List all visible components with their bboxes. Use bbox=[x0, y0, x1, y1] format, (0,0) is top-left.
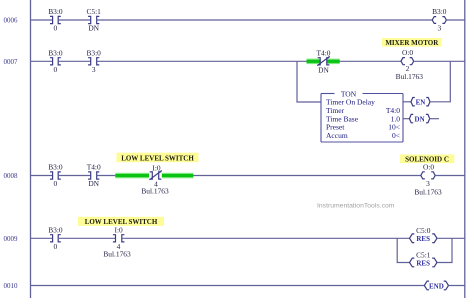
contact I:0/4 normally-closed LOW LEVEL SWITCH (rung 0008) bbox=[149, 171, 161, 180]
svg-text:0006: 0006 bbox=[4, 17, 19, 25]
svg-text:T4:0: T4:0 bbox=[87, 163, 101, 172]
svg-text:B3:0: B3:0 bbox=[48, 163, 63, 172]
svg-text:DN: DN bbox=[415, 115, 425, 123]
svg-text:0009: 0009 bbox=[4, 235, 19, 243]
wire TON to EN coil bbox=[403, 101, 411, 103]
TON instruction box bbox=[321, 94, 403, 143]
EN coil (TON enable output) bbox=[411, 98, 430, 106]
RES coil C5:1 (rung 0009 branch output) bbox=[410, 258, 438, 267]
green power-flow highlight right of T4:0 contact bbox=[327, 59, 339, 65]
contact B3:0/0 (rung 0007) bbox=[50, 58, 61, 65]
branch right vertical up to rung 0009 bbox=[437, 238, 452, 262]
svg-text:T4:0: T4:0 bbox=[317, 48, 331, 57]
contact C5:1/DN (rung 0006) bbox=[88, 16, 99, 23]
contact B3:0/3 (rung 0007) bbox=[88, 58, 99, 65]
wire TON to DN coil bbox=[403, 118, 409, 120]
contact T4:0/DN normally-closed (rung 0007) bbox=[317, 56, 329, 65]
rung 0010 wire: END coil to right rail bbox=[449, 285, 465, 287]
svg-text:0: 0 bbox=[54, 179, 58, 188]
rung 0007 wire: between contacts bbox=[58, 60, 90, 62]
rung 0009 wire: RES coil to right rail bbox=[437, 237, 465, 239]
green power-flow highlight left of I:0 contact bbox=[115, 173, 149, 179]
svg-text:0: 0 bbox=[54, 242, 58, 251]
svg-text:0<: 0< bbox=[392, 131, 400, 140]
svg-text:I:0: I:0 bbox=[114, 226, 123, 235]
svg-text:3: 3 bbox=[426, 179, 430, 188]
svg-text:I:0: I:0 bbox=[152, 163, 161, 172]
rung 0006 wire: coil to right rail bbox=[446, 19, 464, 21]
contact B3:0/0 (rung 0006) bbox=[50, 16, 61, 23]
svg-text:InstrumentationTools.com: InstrumentationTools.com bbox=[317, 202, 395, 209]
rung 0008 wire: coil to right rail bbox=[435, 175, 465, 177]
svg-text:3: 3 bbox=[437, 24, 441, 33]
svg-text:Bul.1763: Bul.1763 bbox=[103, 249, 131, 258]
green power-flow highlight left of T4:0 contact bbox=[307, 59, 321, 65]
svg-text:MIXER MOTOR: MIXER MOTOR bbox=[385, 39, 439, 47]
svg-text:DN: DN bbox=[88, 24, 99, 33]
svg-text:Bul.1763: Bul.1763 bbox=[141, 187, 169, 196]
svg-text:LOW LEVEL SWITCH: LOW LEVEL SWITCH bbox=[121, 154, 194, 162]
branch for C5:1 RES: left vertical bbox=[397, 238, 409, 262]
svg-text:Bul.1763: Bul.1763 bbox=[396, 72, 424, 81]
rung 0007 wire: T4:0 contact to coil O:0/2 bbox=[340, 60, 401, 62]
contact T4:0/DN (rung 0008) bbox=[88, 172, 99, 179]
svg-text:B3:0: B3:0 bbox=[48, 7, 63, 16]
rung 0006 wire: contact C5:1 to coil B3:0/3 bbox=[97, 19, 433, 21]
rung 0008 wire: contact to coil O:0/3 bbox=[193, 175, 420, 177]
DN coil (TON done output) bbox=[409, 114, 429, 122]
rung 0009 wire: between contacts bbox=[58, 237, 115, 239]
svg-text:C5:1: C5:1 bbox=[87, 7, 102, 16]
svg-text:RES: RES bbox=[416, 259, 430, 267]
rung 0006 wire: rail to contact B3:0/0 bbox=[31, 19, 53, 21]
RES coil C5:0 (rung 0009 output) bbox=[410, 234, 438, 243]
svg-text:O:0: O:0 bbox=[423, 163, 434, 172]
contact I:0/4 LOW LEVEL SWITCH (rung 0009) bbox=[113, 235, 125, 242]
svg-text:DN: DN bbox=[88, 179, 99, 188]
SOLENOID C description highlight bbox=[400, 155, 454, 164]
rung 0010 wire: rail to END coil bbox=[31, 285, 425, 287]
rung 0008 wire: rail to contact B3:0/0 bbox=[31, 175, 53, 177]
svg-text:RES: RES bbox=[416, 235, 430, 243]
svg-text:0: 0 bbox=[54, 65, 58, 74]
svg-text:0: 0 bbox=[54, 24, 58, 33]
svg-text:B3:0: B3:0 bbox=[432, 7, 447, 16]
rung 0009 wire: rail to contact B3:0/0 bbox=[31, 237, 53, 239]
LOW LEVEL SWITCH description highlight (rung 0008) bbox=[117, 153, 199, 163]
svg-text:0008: 0008 bbox=[4, 172, 19, 180]
rung 0007 wire: rail to contact B3:0/0 bbox=[31, 60, 53, 62]
END coil (rung 0010) bbox=[424, 281, 448, 290]
left power rail bbox=[30, 0, 32, 298]
stub wire after DN coil bbox=[430, 118, 439, 120]
svg-text:DN: DN bbox=[318, 65, 329, 74]
rung 0009 wire: contact to RES coil C5:0 bbox=[122, 237, 410, 239]
coil B3:0/3 (rung 0006 output) bbox=[432, 17, 446, 24]
MIXER MOTOR description highlight bbox=[382, 38, 442, 47]
svg-text:O:0: O:0 bbox=[402, 48, 413, 57]
wire EN coil to rung (up) bbox=[430, 61, 450, 102]
svg-text:0010: 0010 bbox=[4, 282, 19, 290]
svg-text:Bul.1763: Bul.1763 bbox=[414, 188, 442, 197]
rung 0008 wire: contact to green highlight bbox=[97, 175, 116, 177]
svg-text:3: 3 bbox=[92, 65, 96, 74]
rung 0007 wire: coil to right rail bbox=[414, 60, 465, 62]
coil O:0/3 SOLENOID C (rung 0008 output) bbox=[421, 172, 435, 179]
svg-text:END: END bbox=[429, 282, 444, 290]
svg-text:B3:0: B3:0 bbox=[87, 48, 102, 57]
coil O:0/2 MIXER MOTOR (rung 0007 output) bbox=[401, 58, 414, 65]
branch wire down-left to TON block bbox=[297, 61, 321, 102]
contact B3:0/0 (rung 0008) bbox=[50, 172, 61, 179]
right power rail bbox=[464, 0, 466, 298]
rung 0008 wire: between contacts bbox=[58, 175, 90, 177]
svg-text:B3:0: B3:0 bbox=[48, 48, 63, 57]
svg-text:EN: EN bbox=[416, 98, 426, 106]
svg-text:B3:0: B3:0 bbox=[48, 225, 63, 234]
svg-text:Accum: Accum bbox=[326, 131, 348, 140]
rung 0007 wire: contact B3:0/3 to T4:0 contact bbox=[97, 60, 307, 62]
green power-flow highlight right of I:0 contact bbox=[162, 173, 193, 179]
svg-text:C5:0: C5:0 bbox=[416, 226, 431, 235]
svg-text:C5:1: C5:1 bbox=[416, 251, 431, 260]
rung 0006 wire: between contacts bbox=[58, 19, 90, 21]
LOW LEVEL SWITCH description highlight (rung 0009) bbox=[78, 217, 164, 226]
contact B3:0/0 (rung 0009) bbox=[50, 235, 61, 242]
svg-text:0007: 0007 bbox=[4, 58, 19, 66]
